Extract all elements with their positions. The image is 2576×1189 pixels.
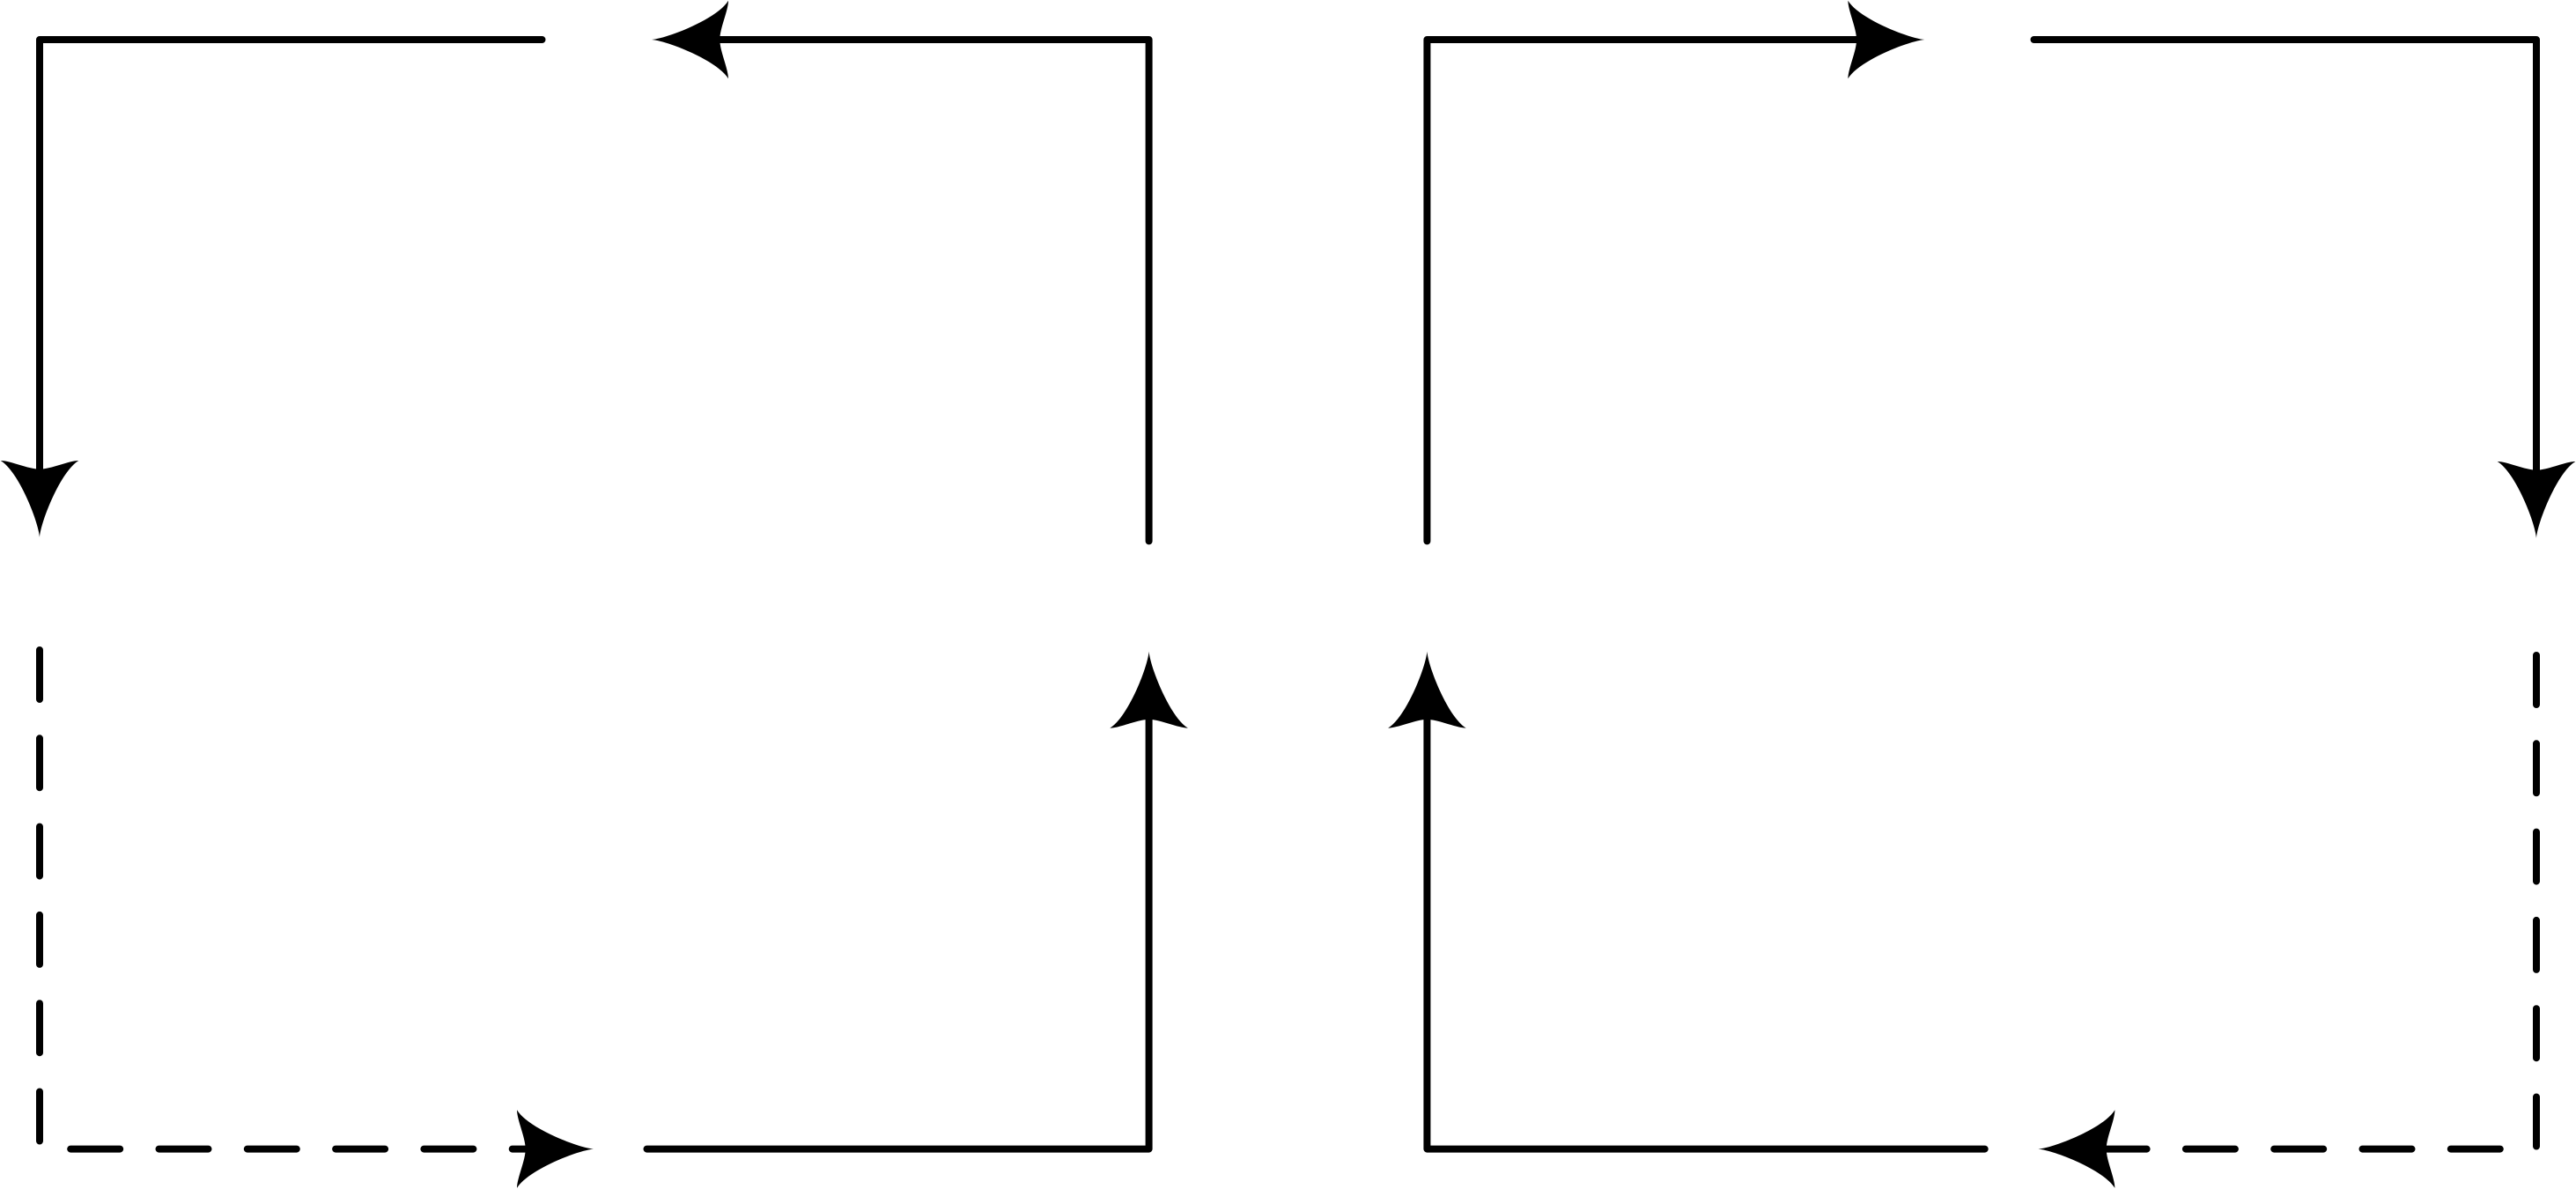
wire: right contour, bottom solid segment going left then up inner side bbox=[1427, 696, 1984, 1149]
wire: right contour, inner-left-top solid segment going up then right along top bbox=[1427, 40, 1880, 541]
wire: right contour, top solid segment going right then down right side bbox=[2034, 40, 2537, 494]
wire: right contour, dashed right-bottom segment (down right side, along bottom leftwards) bbox=[2082, 655, 2536, 1149]
arrowhead: left contour bottom side, pointing right, tip (674,1304.6) bbox=[517, 1110, 594, 1188]
arrowhead: right contour top side, pointing right, tip (2185.4,45) bbox=[1848, 1, 1924, 79]
arrowhead: left contour right side, pointing up, tip (1304.6,739.6) bbox=[1110, 652, 1188, 728]
wire: left contour, bottom-right solid segment going right then up right side bbox=[647, 696, 1149, 1149]
arrowhead: right contour inner-left side, pointing up, tip (1620.4,739.6) bbox=[1388, 652, 1466, 728]
arrowhead: left contour top side, pointing left, tip (740,45) bbox=[652, 1, 728, 79]
wire: left contour, dashed left-bottom segment (down left side, along bottom) bbox=[40, 650, 581, 1149]
wire: left contour, right-top solid segment going up then left along top bbox=[696, 40, 1149, 541]
arrowhead: right contour right side, pointing down, tip (2880,611) bbox=[2498, 462, 2576, 538]
arrowhead: right contour bottom side, pointing left, tip (2314.4,1304.6) bbox=[2038, 1110, 2115, 1188]
wire: left contour, top-left solid segment going left then down left side bbox=[40, 40, 543, 493]
arrowhead: left contour left side, pointing down, tip (45,610) bbox=[1, 461, 79, 537]
